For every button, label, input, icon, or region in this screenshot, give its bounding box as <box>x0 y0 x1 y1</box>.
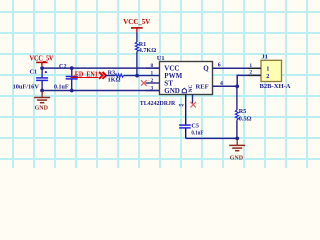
capacitor C5 <box>179 123 203 139</box>
svg-text:Q: Q <box>203 65 209 73</box>
svg-text:B2B-XH-A: B2B-XH-A <box>260 83 291 90</box>
svg-text:0.1uF: 0.1uF <box>191 130 203 137</box>
wire R3 to U1 pin1 <box>124 75 160 77</box>
pin 3 stub <box>146 90 160 92</box>
node junction C2 bottom <box>70 89 74 93</box>
connector J1 <box>248 53 291 90</box>
node junction REF <box>235 84 239 88</box>
NC pin stub bottom <box>192 95 194 105</box>
resistor R3 1KΩ <box>108 70 124 84</box>
svg-text:2: 2 <box>266 73 269 80</box>
node junction bottom rail <box>235 137 239 141</box>
svg-text:U1: U1 <box>157 55 165 62</box>
svg-text:VCC_5V: VCC_5V <box>123 18 150 26</box>
svg-text:10uF/16V: 10uF/16V <box>13 84 40 91</box>
svg-text:0.1uF: 0.1uF <box>54 84 69 91</box>
pin 6 wire Q to J1 <box>213 67 262 69</box>
svg-text:0.5Ω: 0.5Ω <box>239 115 252 122</box>
svg-text:GND: GND <box>230 155 244 161</box>
resistor R1 4.7KΩ <box>135 32 156 75</box>
svg-text:1KΩ: 1KΩ <box>108 76 121 83</box>
svg-text:1: 1 <box>249 63 252 69</box>
thermal pad symbol <box>182 88 186 93</box>
svg-text:NC: NC <box>188 85 194 93</box>
capacitor C1 <box>13 68 49 90</box>
svg-text:GND: GND <box>35 105 49 111</box>
node junction R1/R3/pin1 <box>135 74 139 78</box>
node junction C2 top <box>70 66 74 70</box>
svg-text:2: 2 <box>150 78 153 84</box>
svg-text:4.7KΩ: 4.7KΩ <box>139 47 157 54</box>
svg-text:1: 1 <box>150 71 153 77</box>
svg-text:C2: C2 <box>59 63 67 70</box>
pin 2 stub J1 <box>248 74 261 76</box>
wire PWM net <box>106 75 116 77</box>
wire VCC rail <box>42 67 160 69</box>
svg-text:TL4242DRJR: TL4242DRJR <box>140 100 176 107</box>
node junction C1 bottom <box>40 89 44 93</box>
pad pin wire down to C5 <box>185 95 187 125</box>
ground GND (right) <box>229 139 245 161</box>
wire bottom rail <box>186 137 238 139</box>
svg-text:8: 8 <box>150 63 153 69</box>
power flag VCC_5V (left) <box>30 55 54 66</box>
svg-text:REF: REF <box>196 84 209 91</box>
IC U1 TL4242DRJR <box>140 55 213 107</box>
pin 8 stub <box>146 67 160 69</box>
svg-text:C1: C1 <box>30 68 38 75</box>
ground GND (left) <box>34 92 50 112</box>
resistor R5 0.5Ω <box>235 86 251 138</box>
capacitor C2 <box>54 63 78 91</box>
no-connect X on NC pin <box>190 102 196 108</box>
svg-text:VCC_5V: VCC_5V <box>30 55 54 62</box>
port LED_EN1 <box>71 72 107 79</box>
svg-text:C5: C5 <box>191 123 199 130</box>
svg-text:6: 6 <box>218 62 221 68</box>
pin 1 stub J1 <box>248 67 261 69</box>
svg-text:1: 1 <box>266 66 269 73</box>
svg-text:vv: vv <box>179 103 185 109</box>
svg-text:4: 4 <box>220 81 223 87</box>
power flag VCC_5V (top) <box>123 18 150 32</box>
svg-text:GND: GND <box>164 87 180 95</box>
node junction C1/VCC <box>40 66 44 70</box>
svg-text:J1: J1 <box>262 53 268 60</box>
svg-text:2: 2 <box>249 70 252 76</box>
wire GND rail <box>42 90 159 92</box>
pin 4 wire REF <box>213 85 238 87</box>
svg-text:R5: R5 <box>239 108 247 115</box>
svg-text:3: 3 <box>150 86 153 92</box>
pin 2 stub <box>146 82 160 84</box>
wire REF up to J1 pin2 <box>237 75 261 86</box>
no-connect X on pin 2 <box>141 80 147 86</box>
